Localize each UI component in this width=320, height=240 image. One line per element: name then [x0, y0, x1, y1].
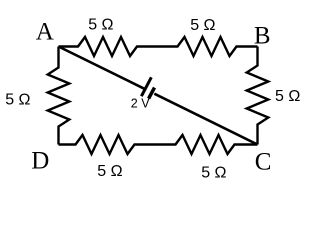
- svg-text:5 Ω: 5 Ω: [201, 165, 226, 182]
- svg-text:2 V: 2 V: [131, 97, 150, 111]
- svg-text:5 Ω: 5 Ω: [190, 17, 215, 34]
- svg-text:5 Ω: 5 Ω: [97, 163, 122, 180]
- svg-text:D: D: [31, 148, 49, 175]
- svg-text:5 Ω: 5 Ω: [275, 88, 300, 105]
- svg-text:B: B: [254, 23, 271, 50]
- svg-text:5 Ω: 5 Ω: [5, 91, 30, 108]
- svg-text:5 Ω: 5 Ω: [88, 17, 113, 34]
- svg-text:A: A: [36, 19, 54, 46]
- svg-text:C: C: [255, 148, 272, 175]
